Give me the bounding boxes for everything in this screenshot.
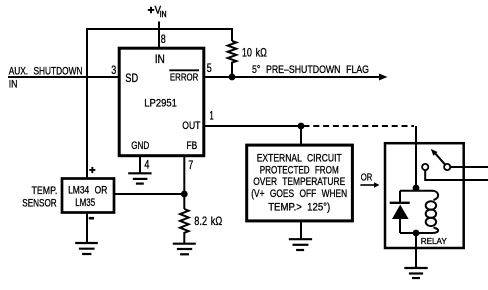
svg-text:PROTECTED FROM: PROTECTED FROM — [260, 164, 339, 176]
svg-text:FB: FB — [187, 140, 198, 152]
svg-text:LP2951: LP2951 — [144, 98, 177, 110]
svg-text:(V+ GOES OFF WHEN: (V+ GOES OFF WHEN — [251, 188, 347, 200]
svg-text:SENSOR: SENSOR — [22, 197, 56, 209]
svg-text:5: 5 — [207, 61, 212, 75]
svg-text:OVER TEMPERATURE: OVER TEMPERATURE — [253, 176, 345, 188]
svg-text:EXTERNAL CIRCUIT: EXTERNAL CIRCUIT — [257, 152, 342, 164]
svg-text:4: 4 — [144, 158, 149, 172]
svg-text:8: 8 — [161, 32, 166, 46]
svg-text:SD: SD — [125, 73, 138, 85]
svg-text:TEMP.> 125°): TEMP.> 125°) — [268, 201, 330, 213]
svg-text:5° PRE–SHUTDOWN FLAG: 5° PRE–SHUTDOWN FLAG — [252, 64, 369, 76]
svg-text:LM34 OR: LM34 OR — [68, 184, 107, 196]
svg-text:1: 1 — [210, 109, 214, 123]
svg-text:TEMP.: TEMP. — [32, 185, 58, 197]
svg-text:8.2 kΩ: 8.2 kΩ — [194, 214, 222, 228]
svg-text:ERROR: ERROR — [170, 72, 199, 84]
svg-text:10 kΩ: 10 kΩ — [242, 46, 267, 60]
svg-text:IN: IN — [160, 10, 167, 19]
svg-text:IN: IN — [155, 54, 165, 66]
svg-text:OR: OR — [361, 171, 373, 183]
svg-text:IN: IN — [9, 79, 18, 91]
svg-text:RELAY: RELAY — [421, 236, 447, 246]
svg-text:OUT: OUT — [182, 120, 200, 132]
svg-text:7: 7 — [188, 158, 193, 172]
svg-text:LM35: LM35 — [75, 197, 95, 209]
svg-text:3: 3 — [111, 63, 116, 77]
svg-text:GND: GND — [131, 140, 149, 152]
svg-text:AUX. SHUTDOWN: AUX. SHUTDOWN — [9, 66, 83, 78]
